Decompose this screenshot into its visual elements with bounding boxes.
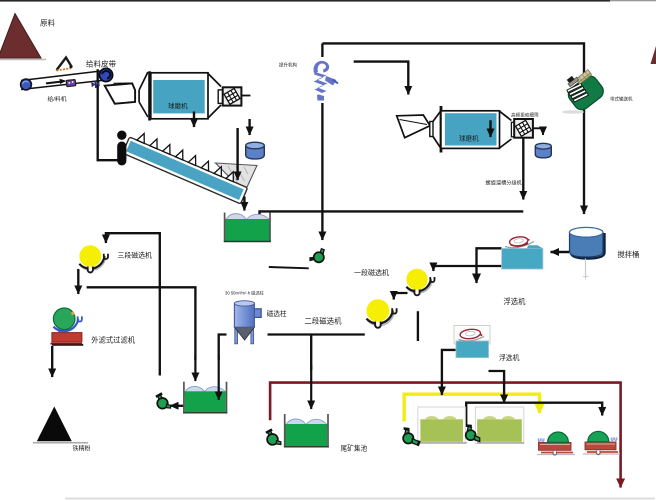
svg-text:球磨机: 球磨机 <box>459 134 479 143</box>
svg-text:给/料机: 给/料机 <box>48 95 67 103</box>
svg-text:给料皮带: 给料皮带 <box>86 59 116 69</box>
svg-text:螺旋溜槽分级机: 螺旋溜槽分级机 <box>486 179 523 187</box>
svg-text:浮选机: 浮选机 <box>504 297 527 306</box>
svg-text:一段磁选机: 一段磁选机 <box>354 268 389 277</box>
svg-text:铁精粉: 铁精粉 <box>73 445 91 453</box>
svg-text:30 50m³/m²·h 磁选柱: 30 50m³/m²·h 磁选柱 <box>225 290 265 297</box>
svg-text:浮选机: 浮选机 <box>499 353 520 362</box>
svg-text:原料: 原料 <box>40 18 55 28</box>
svg-text:提升机构: 提升机构 <box>279 62 297 69</box>
svg-text:二段磁选机: 二段磁选机 <box>305 317 343 326</box>
svg-text:搅拌桶: 搅拌桶 <box>618 250 640 259</box>
svg-text:外滤式过滤机: 外滤式过滤机 <box>91 336 135 345</box>
svg-text:带式输送机: 带式输送机 <box>610 96 633 103</box>
svg-text:尾矿集池: 尾矿集池 <box>341 444 368 453</box>
svg-text:高频振动细筛: 高频振动细筛 <box>511 112 539 119</box>
svg-text:球磨机: 球磨机 <box>168 101 188 110</box>
svg-text:三段磁选机: 三段磁选机 <box>118 251 153 260</box>
svg-text:磁选柱: 磁选柱 <box>267 309 287 318</box>
